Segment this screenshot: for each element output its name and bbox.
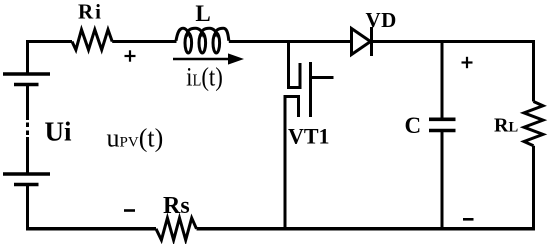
diode VD cathode bar bbox=[370, 27, 373, 56]
wire bottom right (Rs to corner) bbox=[197, 227, 536, 231]
diode VD triangle bbox=[352, 29, 371, 55]
wire capacitor top lead bbox=[441, 40, 444, 119]
arrow head bbox=[228, 53, 244, 64]
wire right vertical bottom (RL to corner) bbox=[532, 146, 535, 230]
wire capacitor bottom lead bbox=[441, 131, 444, 231]
svg-text:Ui: Ui bbox=[45, 117, 72, 147]
resistor Rs bbox=[156, 218, 197, 240]
label plus right bbox=[462, 61, 473, 63]
label minus left bbox=[124, 209, 135, 212]
wire battery mid upper bbox=[26, 85, 29, 121]
wire bottom left (battery to Rs) bbox=[26, 227, 156, 231]
battery Ui cell 2 short plate bbox=[14, 183, 39, 186]
battery Ui cell 2 long plate bbox=[3, 172, 50, 175]
transistor VT1 gate lead bbox=[311, 76, 334, 79]
capacitor C bottom plate bbox=[429, 129, 456, 133]
wire Ri to L bbox=[112, 40, 176, 43]
wire top-left horizontal (battery to Ri) bbox=[26, 40, 72, 43]
inductor L loop 2 bbox=[199, 33, 206, 53]
battery Ui cell 1 short plate bbox=[14, 83, 39, 86]
transistor VT1 gate bar bbox=[309, 62, 312, 117]
svg-text:VD: VD bbox=[366, 8, 397, 32]
battery dashed link bbox=[26, 123, 29, 136]
wire diode to right corner bbox=[371, 40, 536, 43]
svg-text:C: C bbox=[405, 113, 422, 138]
svg-text:uPV(t): uPV(t) bbox=[107, 124, 164, 153]
wire VT1 drain (top tap down) bbox=[287, 40, 290, 89]
inductor L entry arc bbox=[176, 28, 191, 41]
label plus left bbox=[125, 55, 136, 57]
wire left vertical (battery top lead) bbox=[26, 40, 29, 74]
wire right vertical top (corner to RL) bbox=[532, 40, 535, 102]
arrow iL current direction bbox=[173, 58, 229, 61]
svg-text:Rs: Rs bbox=[163, 193, 190, 219]
transistor Q VT1 upper bracket bbox=[287, 63, 300, 88]
inductor L arc 3 bbox=[201, 28, 219, 37]
inductor L loop 1 bbox=[185, 33, 192, 53]
inductor L arc 2 bbox=[187, 28, 205, 37]
svg-text:L: L bbox=[195, 1, 210, 26]
wire VT1 source to bottom bbox=[284, 97, 287, 231]
svg-text:RL: RL bbox=[494, 115, 518, 137]
transistor VT1 lower bracket bbox=[285, 97, 299, 121]
svg-text:VT1: VT1 bbox=[288, 124, 330, 149]
capacitor C top plate bbox=[429, 118, 456, 122]
battery Ui cell 1 long plate bbox=[3, 72, 50, 75]
resistor Ri bbox=[72, 30, 112, 50]
inductor L loop 3 bbox=[213, 33, 220, 53]
resistor RL bbox=[524, 102, 543, 146]
inductor L exit arc bbox=[215, 28, 229, 41]
svg-text:iL(t): iL(t) bbox=[186, 63, 223, 92]
svg-text:Ri: Ri bbox=[78, 0, 103, 24]
wire battery bottom lead bbox=[26, 185, 29, 231]
wire L to diode bbox=[229, 40, 352, 43]
wire battery mid lower bbox=[26, 137, 29, 174]
label minus right bbox=[463, 218, 474, 221]
